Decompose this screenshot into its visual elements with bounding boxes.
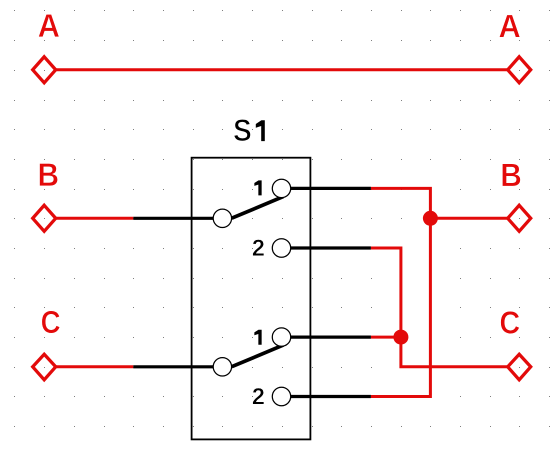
pin number 1 pole 2 <box>254 330 261 345</box>
pin S1 pole 2 throw 2 <box>291 395 371 398</box>
connector B left diamond <box>33 205 56 231</box>
pin S1 pole 1 throw 2 <box>291 246 371 249</box>
connector A right diamond <box>508 57 531 83</box>
wire from switch pole 1 throw 2 to node C right <box>371 248 508 367</box>
switch pole 1 throw 1 contact circle <box>272 179 290 197</box>
switch pole 1 throw 2 contact circle <box>272 239 290 257</box>
switch pole 2 common contact circle <box>213 358 231 376</box>
junction B <box>423 211 438 226</box>
node B right label <box>502 164 520 187</box>
node B left label <box>40 163 58 186</box>
pin number 1 pole 1 <box>254 180 261 195</box>
connector B right diamond <box>508 205 531 231</box>
connector C right diamond <box>508 354 531 380</box>
switch S1 body <box>192 158 311 440</box>
node A right label <box>499 15 520 38</box>
wire C left <box>56 365 133 368</box>
switch pole 1 lever <box>232 197 284 219</box>
pin S1 pole 2 throw 1 <box>291 336 371 339</box>
wire from switch pole 1 throw 1 to node B right <box>371 188 431 396</box>
pin S1 pole 1 throw 1 <box>291 187 371 190</box>
node C right label <box>501 311 520 334</box>
switch pole 2 throw 1 contact circle <box>272 328 290 346</box>
switch S1 reference label <box>234 119 265 141</box>
wire B left <box>56 217 133 220</box>
wire junction to B right connector <box>430 217 507 220</box>
node C left label <box>42 311 60 334</box>
pin number 2 pole 1 <box>253 239 264 255</box>
wire pole 2 throw 1 stub <box>371 336 401 339</box>
switch pole 1 common contact circle <box>213 209 231 227</box>
pin S1 pole 1 common <box>133 217 213 220</box>
switch pole 2 throw 2 contact circle <box>272 387 290 405</box>
wire net A horizontal <box>56 68 508 71</box>
pin number 2 pole 2 <box>253 388 264 404</box>
connector A left diamond <box>33 57 56 83</box>
junction C <box>393 330 408 345</box>
pin S1 pole 2 common <box>133 365 213 368</box>
connector C left diamond <box>33 354 56 380</box>
node A left label <box>38 14 59 37</box>
switch pole 2 lever <box>232 345 284 367</box>
